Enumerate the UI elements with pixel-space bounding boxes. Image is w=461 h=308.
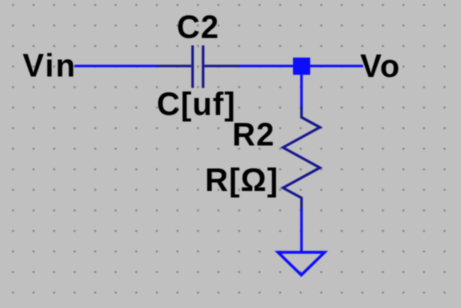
ground symbol: [278, 252, 325, 275]
svg-text:C2: C2: [177, 9, 220, 45]
wire from junction node to Vo: [308, 65, 363, 68]
wire from capacitor C2 to junction node: [239, 65, 295, 68]
resistor R2: [283, 108, 320, 210]
svg-text:R[Ω]: R[Ω]: [205, 162, 279, 198]
wire from Vin to capacitor C2: [75, 65, 158, 68]
wire from junction node down to resistor R2: [300, 73, 303, 109]
svg-text:R2: R2: [232, 116, 275, 152]
svg-text:C[uf]: C[uf]: [157, 86, 236, 122]
wire from resistor R2 to ground: [300, 209, 303, 252]
junction node square: [293, 58, 310, 75]
svg-text:Vo: Vo: [360, 48, 400, 84]
svg-text:Vin: Vin: [23, 48, 77, 84]
capacitor C2: [157, 45, 239, 88]
